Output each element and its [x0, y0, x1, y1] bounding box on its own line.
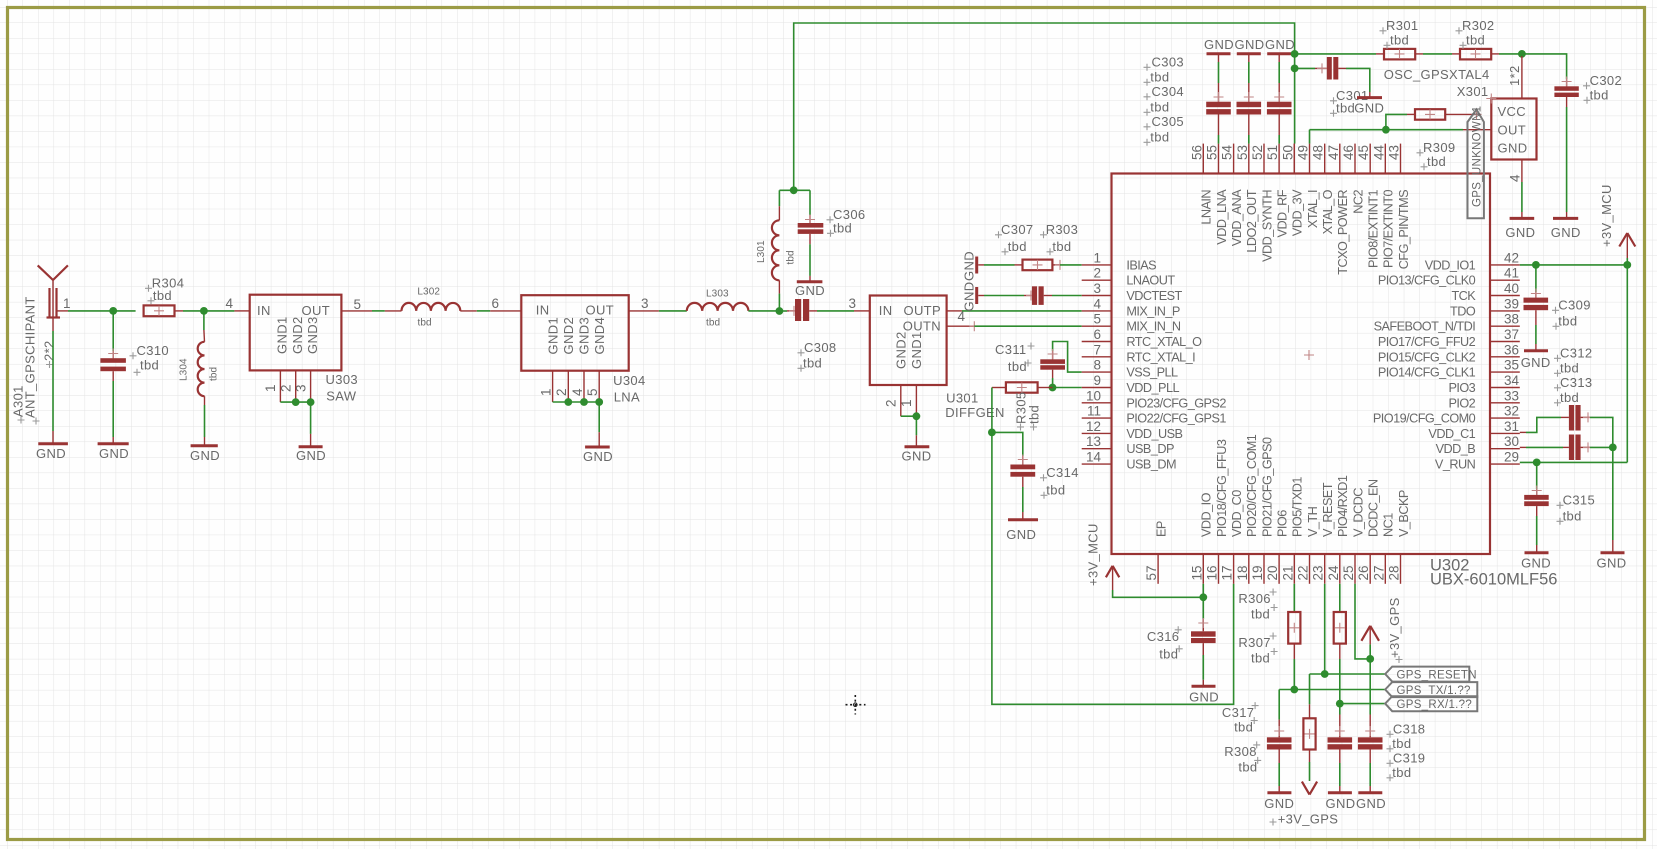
wire C306 bottom to GND	[809, 234, 811, 281]
generator U301 DIFFGEN	[870, 296, 947, 386]
junction U303 pin3	[307, 398, 315, 406]
svg-text:20: 20	[1265, 566, 1280, 581]
svg-text:C314: C314	[1046, 465, 1078, 480]
pin 41 PIO13/CFG_CLK0	[1378, 266, 1520, 288]
svg-text:PIO2: PIO2	[1448, 396, 1475, 410]
svg-text:VDD_B: VDD_B	[1436, 442, 1476, 456]
svg-text:57: 57	[1144, 566, 1159, 581]
wire C307 to VDCTEST	[1044, 295, 1082, 297]
svg-text:1*2: 1*2	[1507, 65, 1522, 86]
svg-text:PIO22/CFG_GPS1: PIO22/CFG_GPS1	[1126, 412, 1226, 426]
pin 43 CFG_PIN/TMS	[1387, 144, 1411, 270]
pin 53 LDO2_OUT	[1235, 144, 1259, 253]
pin 19 PIO21/CFG_GPS0	[1250, 437, 1274, 584]
wire C315 to GND	[1536, 506, 1538, 552]
svg-text:56: 56	[1189, 145, 1204, 160]
svg-text:2: 2	[1093, 266, 1101, 281]
label C314	[1040, 465, 1079, 499]
svg-text:PIO20/CFG_COM1: PIO20/CFG_COM1	[1245, 434, 1259, 537]
pin 8 VSS_PLL	[1082, 358, 1178, 380]
pin 23 V_RESET	[1311, 482, 1335, 584]
capacitor C310	[100, 358, 126, 371]
pin 28 V_BCKP	[1387, 490, 1411, 584]
pin 20 PIO6	[1265, 510, 1289, 584]
svg-text:tbd: tbd	[1560, 390, 1579, 405]
wire C311 bottom	[1052, 370, 1054, 388]
svg-text:VDD_PLL: VDD_PLL	[1126, 381, 1179, 395]
svg-text:14: 14	[1086, 450, 1102, 465]
svg-text:38: 38	[1504, 312, 1519, 327]
label C308	[798, 340, 837, 372]
wire U304 gnd bus	[553, 401, 600, 403]
svg-text:tbd: tbd	[1590, 88, 1609, 103]
wire U301 to GND	[915, 416, 917, 446]
wire U303 out to L302	[341, 310, 401, 312]
pin 49 XTAL_I	[1296, 144, 1320, 228]
svg-text:C307: C307	[1001, 222, 1033, 237]
svg-text:R302: R302	[1462, 18, 1494, 33]
ground GND C317	[1264, 793, 1294, 811]
wire U301 gnd	[901, 415, 917, 417]
supply +3V_GPS down arrow	[1270, 782, 1339, 827]
svg-text:tbd: tbd	[1392, 736, 1411, 751]
chip U302 body	[1112, 174, 1491, 555]
svg-text:X301: X301	[1457, 84, 1489, 99]
ground GND C318	[1326, 793, 1356, 811]
flag GPS_UNKNOWN1	[1468, 106, 1484, 219]
pin 16 PIO18/CFG_FFU3	[1205, 439, 1229, 584]
capacitor C313	[1569, 435, 1581, 461]
svg-text:U303: U303	[326, 372, 358, 387]
svg-text:26: 26	[1356, 566, 1371, 581]
svg-text:OUTP: OUTP	[903, 303, 941, 318]
pin 56 LNAIN	[1189, 144, 1213, 225]
svg-text:L303: L303	[706, 289, 729, 300]
wire C319 to GND	[1369, 750, 1371, 793]
inductor L301	[772, 220, 780, 280]
svg-text:tbd: tbd	[1008, 359, 1027, 374]
svg-text:GPS_RESETN: GPS_RESETN	[1397, 670, 1477, 682]
svg-text:tbd: tbd	[1427, 154, 1446, 169]
junction C315 tap	[1533, 459, 1541, 467]
wire C316 to GND	[1202, 643, 1204, 685]
svg-text:10: 10	[1086, 388, 1101, 403]
svg-text:L304: L304	[179, 358, 190, 381]
flag GPS_RX	[1385, 696, 1477, 711]
svg-text:GND: GND	[1326, 796, 1356, 811]
junction U303 pin2	[292, 398, 300, 406]
junction VDD_3V C301 tap	[1291, 65, 1299, 73]
label C317	[1222, 702, 1259, 734]
junction L304 tap	[200, 307, 208, 315]
wire R302 to VCC node	[1491, 53, 1522, 55]
wire V_RESET RESETN net	[1310, 584, 1386, 674]
wire U301 OUTP to MIX_IN_P	[947, 310, 1082, 312]
wire VDD_B to C313	[1520, 446, 1569, 448]
wire C302 to GND	[1566, 97, 1568, 218]
wire C302 top lead	[1562, 77, 1572, 87]
wire C310 bottom to GND	[112, 371, 114, 443]
ground GND C309	[1521, 351, 1551, 370]
pin 29 V_RUN	[1435, 450, 1520, 472]
svg-text:V_RUN: V_RUN	[1435, 458, 1476, 472]
ground GND rotated R303	[962, 251, 977, 281]
svg-text:VDD_IO: VDD_IO	[1200, 492, 1214, 537]
svg-text:GND3: GND3	[577, 317, 592, 355]
ground GND C314	[1006, 520, 1038, 542]
svg-text:9: 9	[1093, 373, 1101, 388]
capacitor C304	[1237, 102, 1262, 115]
svg-text:RTC_XTAL_O: RTC_XTAL_O	[1126, 335, 1202, 349]
svg-text:PIO3: PIO3	[1448, 381, 1475, 395]
pin 42 VDD_IO1	[1425, 250, 1520, 272]
svg-text:tbd: tbd	[833, 221, 852, 236]
svg-text:16: 16	[1205, 566, 1220, 581]
svg-text:19: 19	[1250, 566, 1265, 581]
junction C313 node	[1609, 444, 1617, 452]
pin 3 VDCTEST	[1082, 281, 1183, 303]
wire C310 top	[108, 311, 118, 359]
label C318 C319	[1387, 722, 1426, 782]
svg-text:3: 3	[1093, 281, 1101, 296]
pin 5 MIX_IN_N	[1082, 312, 1181, 334]
svg-text:VDD_3V: VDD_3V	[1291, 189, 1305, 236]
label U302	[1430, 557, 1557, 589]
svg-text:32: 32	[1504, 404, 1519, 419]
pin 26 DCDC_EN	[1356, 479, 1380, 584]
svg-text:NC1: NC1	[1382, 513, 1396, 537]
svg-text:22: 22	[1296, 566, 1311, 581]
pin 22 V_TH	[1296, 506, 1320, 583]
label OSC_GPSXTAL4 X301	[1384, 67, 1490, 99]
pin 25 V_DCDC	[1341, 488, 1365, 584]
svg-text:tbd: tbd	[1052, 239, 1071, 254]
svg-text:U301: U301	[946, 391, 978, 406]
wire L304 top	[203, 311, 206, 342]
wire +3V_MCU column down	[1626, 265, 1628, 463]
svg-text:L302: L302	[417, 287, 440, 298]
svg-text:GND: GND	[1551, 225, 1581, 240]
svg-text:U304: U304	[613, 373, 645, 388]
svg-text:ANT_GPSCHIPANT: ANT_GPSCHIPANT	[23, 296, 38, 418]
svg-text:1: 1	[539, 388, 554, 396]
svg-text:PIO15/CFG_CLK2: PIO15/CFG_CLK2	[1378, 350, 1476, 364]
junction C309 tap	[1532, 261, 1540, 269]
resistor R307	[1334, 612, 1346, 644]
svg-text:PIO7/EXTINT0: PIO7/EXTINT0	[1382, 190, 1396, 269]
ground GND above C305	[1265, 37, 1295, 54]
U301 bottom pins 2 1	[884, 385, 917, 416]
capacitor C315	[1524, 495, 1549, 506]
wire antenna to GND	[52, 331, 54, 431]
junction +3V_MCU column	[1623, 261, 1631, 269]
junction C310 tap	[109, 307, 117, 315]
svg-text:1: 1	[1093, 250, 1101, 265]
label R308	[1224, 741, 1261, 774]
junction +3V_GPS node	[1366, 655, 1374, 663]
svg-text:1: 1	[263, 384, 278, 392]
svg-text:GND: GND	[1265, 37, 1295, 52]
ground GND above C304	[1235, 37, 1265, 54]
svg-text:12: 12	[1086, 419, 1101, 434]
resistor R308	[1303, 718, 1315, 749]
ground GND C306	[795, 282, 825, 298]
svg-text:tbd: tbd	[1238, 760, 1257, 775]
svg-text:C312: C312	[1560, 346, 1592, 361]
svg-text:GND: GND	[1189, 690, 1219, 705]
svg-text:V_DCDC: V_DCDC	[1351, 488, 1365, 537]
ground GND C319	[1356, 793, 1386, 811]
ground GND right column	[1597, 553, 1627, 571]
svg-text:PIO13/CFG_CLK0: PIO13/CFG_CLK0	[1378, 274, 1476, 288]
wire GND to R303	[978, 264, 1022, 266]
svg-text:tbd: tbd	[1150, 100, 1169, 115]
svg-text:GND: GND	[1356, 796, 1386, 811]
svg-text:GND4: GND4	[592, 317, 607, 355]
svg-text:VDD_LNA: VDD_LNA	[1215, 189, 1229, 245]
ground GND rotated C307	[962, 282, 977, 312]
label C313	[1554, 375, 1592, 406]
wire junction to R309	[1386, 114, 1415, 129]
junction VDD_IO C316	[1199, 593, 1207, 601]
svg-text:PIO8/EXTINT1: PIO8/EXTINT1	[1367, 190, 1381, 269]
wire C305 leads	[1274, 55, 1284, 144]
pin 1 IBIAS	[1082, 250, 1156, 272]
svg-text:LDO2_OUT: LDO2_OUT	[1245, 189, 1259, 252]
svg-text:tbd: tbd	[1251, 607, 1270, 622]
svg-text:DCDC_EN: DCDC_EN	[1367, 479, 1381, 537]
label U301	[945, 391, 1005, 421]
wire TX to C317	[1274, 690, 1284, 738]
label C309	[1552, 298, 1591, 330]
pin 46 NC2	[1341, 144, 1365, 214]
wire VDD_C1 jog to C312	[1520, 417, 1569, 432]
capacitor C319	[1358, 737, 1383, 749]
wire R307 to RX net	[1339, 644, 1341, 704]
label C311	[995, 342, 1035, 374]
wire RX net	[1340, 703, 1385, 705]
junction C314 tap	[988, 429, 996, 437]
capacitor C303	[1206, 102, 1231, 115]
svg-text:R306: R306	[1238, 591, 1270, 606]
svg-text:52: 52	[1250, 145, 1265, 160]
junction L301 C306	[790, 186, 798, 194]
wire R309 to flag	[1445, 109, 1481, 119]
pin 51 VDD_RF	[1265, 144, 1289, 238]
ground GND L304	[190, 446, 220, 463]
wire C301 to GND	[1338, 68, 1370, 96]
capacitor C317	[1267, 737, 1292, 749]
crosshair cursor	[846, 695, 866, 715]
svg-text:tbd: tbd	[803, 356, 822, 371]
svg-text:+3V_GPS: +3V_GPS	[1387, 597, 1402, 658]
svg-text:tbd: tbd	[1390, 33, 1409, 48]
svg-text:37: 37	[1504, 327, 1519, 342]
pin 9 VDD_PLL	[1082, 373, 1180, 395]
svg-text:GND1: GND1	[909, 331, 924, 369]
svg-text:OSC_GPSXTAL4: OSC_GPSXTAL4	[1384, 67, 1490, 82]
svg-text:tbd: tbd	[153, 288, 172, 303]
label L302	[417, 287, 440, 329]
svg-text:PIO19/CFG_COM0: PIO19/CFG_COM0	[1373, 412, 1476, 426]
pin 37 PIO17/CFG_FFU2	[1378, 327, 1520, 349]
svg-text:GND: GND	[36, 446, 66, 461]
supply +3V_MCU left	[1086, 523, 1204, 597]
svg-text:GND: GND	[902, 449, 932, 464]
ground GND antenna	[36, 444, 68, 461]
wire RX to C318	[1335, 704, 1345, 738]
pin 2 LNAOUT	[1082, 266, 1176, 288]
svg-text:R308: R308	[1224, 744, 1256, 759]
pin 21 PIO5/TXD1	[1280, 477, 1304, 584]
junction RXD1 node	[1336, 700, 1344, 708]
wire V_DCDC to +3V_GPS node	[1355, 584, 1370, 659]
wire R305 left riser	[992, 388, 1006, 433]
wire VDD_C0 long run	[992, 432, 1234, 704]
label C306	[827, 207, 866, 237]
wire L303 to junction	[748, 310, 779, 312]
wire R305 to VDD_PLL	[1038, 387, 1082, 389]
svg-text:R307: R307	[1238, 635, 1270, 650]
svg-text:34: 34	[1504, 373, 1520, 388]
label R306	[1238, 589, 1277, 622]
svg-text:2: 2	[554, 388, 569, 396]
label C316	[1147, 626, 1183, 661]
svg-text:L301: L301	[756, 240, 767, 263]
svg-text:OUT: OUT	[302, 303, 331, 318]
capacitor C312	[1569, 405, 1581, 431]
pin 15 VDD_IO	[1189, 492, 1213, 583]
svg-text:3: 3	[641, 296, 649, 311]
svg-text:TDO: TDO	[1450, 304, 1476, 318]
pin 12 VDD_USB	[1082, 419, 1183, 441]
capacitor C316	[1191, 631, 1216, 643]
inductor L302	[402, 303, 461, 311]
junction V_RESET node	[1321, 670, 1329, 678]
svg-text:43: 43	[1387, 145, 1402, 160]
inductor L303	[687, 303, 749, 311]
svg-text:5: 5	[354, 297, 362, 312]
svg-text:40: 40	[1504, 281, 1519, 296]
svg-text:C302: C302	[1590, 73, 1622, 88]
svg-text:tbd: tbd	[1008, 239, 1027, 254]
svg-text:13: 13	[1086, 434, 1101, 449]
pin 11 PIO22/CFG_GPS1	[1082, 404, 1227, 426]
svg-text:XTAL_O: XTAL_O	[1321, 189, 1335, 234]
wire L302 to U304	[460, 310, 521, 312]
svg-text:2: 2	[279, 384, 294, 392]
svg-text:GND: GND	[296, 448, 326, 463]
svg-text:5: 5	[1093, 312, 1101, 327]
junction U304 pin4	[580, 398, 588, 406]
label R301	[1380, 18, 1419, 49]
capacitor C308	[795, 299, 809, 321]
wire C312 right	[1581, 412, 1613, 447]
svg-text:GND2: GND2	[290, 316, 305, 354]
wire X301 GND pin	[1508, 160, 1523, 218]
wire U304 out to L303	[629, 310, 687, 312]
wire C301 left	[1295, 63, 1327, 73]
svg-text:IN: IN	[536, 303, 550, 318]
svg-text:54: 54	[1220, 144, 1235, 160]
svg-text:tbd: tbd	[1251, 651, 1270, 666]
capacitor C302	[1554, 86, 1578, 97]
svg-text:25: 25	[1341, 566, 1356, 581]
svg-text:GND: GND	[795, 283, 825, 298]
svg-text:48: 48	[1311, 145, 1326, 160]
junction L301 tap	[776, 307, 784, 315]
pin 33 PIO2	[1448, 388, 1519, 410]
pin 54 VDD_ANA	[1220, 144, 1244, 246]
svg-text:23: 23	[1311, 566, 1326, 581]
wire C317 to GND	[1278, 750, 1280, 793]
svg-text:OUT: OUT	[1498, 123, 1527, 138]
pin 18 PIO20/CFG_COM1	[1235, 434, 1259, 584]
svg-text:GND: GND	[99, 446, 129, 461]
capacitor C314	[1010, 465, 1035, 477]
svg-text:V_BCKP: V_BCKP	[1397, 490, 1411, 537]
svg-text:C316: C316	[1147, 629, 1179, 644]
svg-text:2*2: 2*2	[42, 340, 57, 361]
wire R303 to IBIAS	[1052, 260, 1081, 270]
svg-text:GND: GND	[1006, 527, 1036, 542]
svg-text:C304: C304	[1152, 84, 1184, 99]
wire +3V_GPS to C319	[1365, 659, 1375, 737]
label C302	[1583, 73, 1622, 104]
wire C314 to GND	[1022, 477, 1024, 519]
wire U301 OUTN to MIX_IN_N	[947, 321, 1082, 331]
svg-text:tbd: tbd	[1234, 720, 1253, 735]
capacitor C318	[1328, 737, 1353, 749]
svg-text:3: 3	[848, 296, 856, 311]
svg-text:GPS_UNKNOWN1: GPS_UNKNOWN1	[1472, 106, 1484, 207]
svg-text:C311: C311	[995, 342, 1027, 357]
svg-text:6: 6	[491, 296, 499, 311]
svg-text:GPS_RX/1.??: GPS_RX/1.??	[1397, 699, 1473, 711]
svg-text:1: 1	[899, 399, 914, 407]
svg-text:tbd: tbd	[1027, 405, 1042, 424]
svg-text:46: 46	[1341, 145, 1356, 160]
svg-text:V_RESET: V_RESET	[1321, 482, 1335, 537]
svg-text:UBX-6010MLF56: UBX-6010MLF56	[1430, 571, 1557, 589]
svg-text:MIX_IN_N: MIX_IN_N	[1126, 320, 1181, 334]
svg-text:30: 30	[1504, 434, 1519, 449]
label L304	[179, 358, 220, 381]
wire into U303	[234, 310, 249, 312]
svg-text:USB_DM: USB_DM	[1126, 458, 1176, 472]
svg-text:7: 7	[1093, 342, 1101, 357]
wire pin21 to R306	[1293, 584, 1295, 612]
svg-text:MIX_IN_P: MIX_IN_P	[1126, 304, 1180, 318]
svg-text:GND: GND	[962, 251, 977, 281]
label C301	[1330, 88, 1368, 117]
ground GND U304	[583, 447, 613, 464]
svg-text:LNAIN: LNAIN	[1200, 190, 1214, 225]
svg-text:5: 5	[585, 388, 600, 396]
capacitor C306	[798, 223, 824, 234]
wire R301 to R302	[1415, 53, 1460, 55]
svg-text:27: 27	[1371, 566, 1386, 581]
svg-text:tbd: tbd	[1150, 70, 1169, 85]
svg-text:TCXO_POWER: TCXO_POWER	[1336, 190, 1350, 275]
svg-text:C310: C310	[137, 343, 169, 358]
wire VDD_3V to pin 50	[1293, 54, 1295, 174]
svg-text:tbd: tbd	[1150, 130, 1169, 145]
svg-text:V_TH: V_TH	[1306, 506, 1320, 537]
pin 13 USB_DP	[1082, 434, 1174, 456]
svg-text:R303: R303	[1046, 222, 1078, 237]
junction TXD1 node	[1290, 686, 1298, 694]
